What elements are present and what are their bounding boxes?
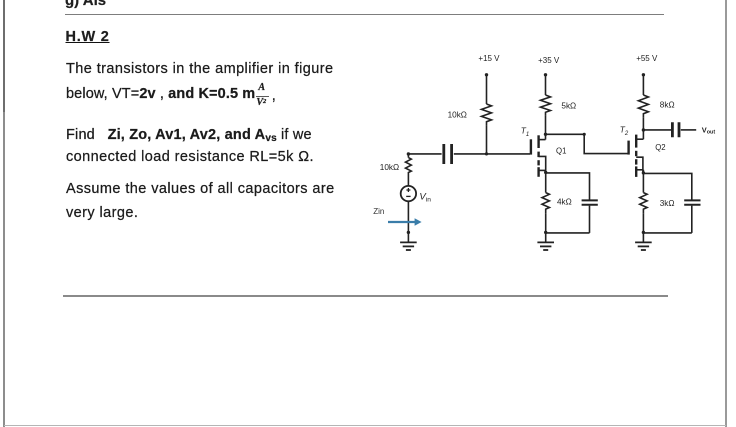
wire +55V to RD2: [642, 75, 644, 95]
capacitor C3 plates: [672, 122, 679, 137]
page left border darker top: [3, 0, 5, 112]
resistor RS1 4k: [542, 193, 549, 214]
resistor RS2 3k: [640, 193, 647, 214]
wire source1 to C2 branch: [546, 173, 590, 200]
wire source2 to C4 branch: [643, 173, 691, 200]
svg-text:Q2: Q2: [655, 143, 665, 152]
resistor Rbias 10k (vertical zigzag): [482, 104, 492, 126]
capacitor C4 plates (horizontal): [684, 200, 700, 204]
page bottom border line: [4, 425, 726, 426]
svg-text:T1: T1: [521, 125, 529, 138]
wire input node to Rin: [407, 154, 409, 158]
node VDD2 dot: [544, 73, 547, 76]
transistor T2 channel segments: [635, 135, 637, 177]
resistor Rin 10k (source resistance): [406, 158, 412, 177]
node above input ground dot: [407, 231, 410, 234]
node stage2 bottom dot: [642, 231, 645, 234]
wire RD1 to drain1: [545, 116, 547, 140]
capacitor C1 plates: [444, 144, 452, 164]
node stage1 bottom dot: [544, 231, 547, 234]
svg-text:5kΩ: 5kΩ: [561, 101, 576, 110]
wire +35V to RD1: [545, 75, 547, 95]
paragraph line 5: [66, 177, 335, 201]
svg-text:10kΩ: 10kΩ: [380, 163, 399, 172]
transistor T1 body stub and tie: [539, 156, 546, 172]
wire Rbias to gate node: [486, 126, 488, 154]
svg-text:Zin: Zin: [373, 207, 384, 216]
svg-text:+55 V: +55 V: [636, 54, 658, 63]
transistor T2 body stub and tie: [636, 157, 643, 173]
page right border line: [725, 0, 726, 427]
wire +15V to R bias: [486, 75, 488, 104]
wire Vin to ground: [407, 201, 409, 242]
ground GND input: [400, 242, 417, 250]
node VDD3 dot: [642, 73, 645, 76]
wire source1 down: [545, 170, 547, 192]
node corner dot: [583, 133, 586, 136]
wire Rin to Vin source: [407, 177, 409, 186]
node input junction dot: [407, 152, 410, 155]
wire drain1 to T2 gate (jog): [546, 134, 628, 153]
ground GND2: [635, 242, 652, 250]
transistor T1 drain stub: [539, 139, 546, 141]
capacitor C2 plates (horizontal): [582, 200, 598, 204]
wire input node to C1: [409, 153, 442, 155]
wire source2 down: [642, 170, 644, 193]
header horizontal rule: [65, 14, 664, 16]
svg-text:4kΩ: 4kΩ: [557, 197, 572, 206]
transistor T1 channel segments: [537, 135, 539, 177]
wire RD2 to drain2: [642, 117, 644, 139]
bottom horizontal rule: [63, 295, 668, 296]
svg-text:8kΩ: 8kΩ: [660, 100, 675, 109]
wire RS2 to ground: [642, 213, 644, 242]
wire stage1 bottom rail: [546, 232, 590, 234]
svg-text:10kΩ: 10kΩ: [448, 110, 467, 119]
source Vin minus sign: [406, 195, 410, 197]
transistor T1 gate bar: [530, 139, 532, 154]
node VDD1 dot: [485, 73, 488, 76]
ground GND1: [537, 242, 554, 250]
page left border line: [3, 0, 5, 427]
paragraph line 1: [66, 57, 333, 81]
paragraph line 4: [66, 145, 314, 169]
wire drain2 to C3: [643, 129, 671, 131]
wire C3 to Vout: [681, 129, 696, 131]
header text g) Als (clipped at top): [65, 0, 106, 11]
node gate bias junction dot: [485, 152, 488, 155]
wire C4 bottom to ground rail: [691, 206, 693, 233]
transistor T1 source stub: [539, 169, 546, 171]
svg-text:T2: T2: [620, 125, 629, 138]
svg-text:+15 V: +15 V: [478, 54, 500, 63]
transistor T2 drain stub: [636, 138, 643, 140]
arrow Zin (blue): [388, 218, 422, 225]
wire stage2 bottom rail: [643, 232, 691, 234]
svg-text:+35 V: +35 V: [538, 56, 560, 65]
resistor RD2 8k: [638, 95, 648, 117]
paragraph line 3: [66, 123, 312, 151]
transistor T2 source stub: [636, 169, 643, 171]
heading H.W 2: [66, 25, 110, 49]
paragraph line 2 with fraction A/V2: [66, 82, 270, 106]
node source1 dot: [544, 171, 547, 174]
wire RS1 to ground: [545, 213, 547, 242]
node drain1 dot: [544, 133, 547, 136]
node source2 dot: [642, 171, 645, 174]
transistor T2 gate bar: [627, 141, 629, 155]
node drain2 dot: [642, 128, 645, 131]
wire C1 to gate T1: [454, 153, 530, 155]
svg-text:Vin: Vin: [419, 192, 431, 204]
wire C2 bottom to ground rail: [589, 206, 591, 233]
svg-text:Q1: Q1: [556, 147, 566, 156]
source Vin circle: [401, 186, 416, 201]
resistor RD1 5k: [541, 95, 551, 116]
paragraph line 6: [66, 201, 138, 225]
source Vin plus sign: [406, 188, 410, 192]
svg-text:3kΩ: 3kΩ: [660, 199, 675, 208]
svg-text:Vout: Vout: [702, 126, 716, 136]
